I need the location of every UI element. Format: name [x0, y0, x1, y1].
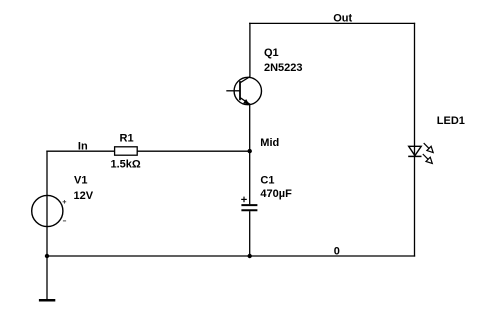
wire In horizontal	[47, 150, 250, 152]
LED1 triangle	[409, 146, 422, 155]
voltage source V1 circle	[32, 195, 63, 226]
V1 plus sign	[63, 200, 67, 204]
svg-text:Q1: Q1	[264, 47, 279, 59]
svg-text:470µF: 470µF	[260, 188, 292, 200]
transistor Q1 circle	[234, 77, 261, 104]
svg-text:0: 0	[334, 246, 340, 258]
junction dot left 0 rail	[45, 254, 49, 258]
Q1 base bar	[239, 81, 241, 100]
capacitor plus sign	[241, 197, 247, 203]
ground	[39, 299, 55, 302]
svg-text:Mid: Mid	[260, 137, 279, 149]
wire capacitor to 0 rail	[249, 211, 251, 256]
wire left vertical through V1	[46, 151, 48, 300]
capacitor C1 top plate	[241, 204, 257, 206]
wire bottom 0 rail	[47, 255, 415, 257]
capacitor C1 bottom plate	[241, 209, 257, 211]
svg-text:2N5223: 2N5223	[264, 62, 303, 74]
V1 minus sign	[63, 220, 66, 222]
junction dot Mid node	[248, 149, 252, 153]
svg-text:In: In	[78, 141, 88, 153]
resistor R1 body	[115, 147, 138, 155]
Q1 base lead	[226, 90, 240, 92]
svg-text:C1: C1	[260, 175, 274, 187]
wire emitter to Mid to capacitor	[249, 105, 251, 205]
wire top Out: collector to right rail	[250, 22, 415, 24]
LED1 cathode bar	[408, 155, 421, 157]
svg-text:V1: V1	[74, 174, 87, 186]
svg-text:12V: 12V	[74, 190, 94, 202]
svg-text:1.5kΩ: 1.5kΩ	[111, 159, 141, 171]
svg-text:LED1: LED1	[437, 115, 465, 127]
LED1 light arrow upper	[422, 141, 436, 155]
Q1 emitter diagonal	[240, 98, 250, 105]
svg-text:R1: R1	[120, 133, 134, 145]
wire collector vertical	[249, 23, 251, 76]
LED1 light arrow lower	[421, 152, 435, 166]
junction dot capacitor 0 rail	[248, 254, 252, 258]
wire right rail vertical	[414, 23, 416, 256]
Q1 collector diagonal	[240, 77, 250, 83]
svg-text:Out: Out	[333, 13, 352, 25]
Q1 emitter arrow	[243, 99, 249, 105]
